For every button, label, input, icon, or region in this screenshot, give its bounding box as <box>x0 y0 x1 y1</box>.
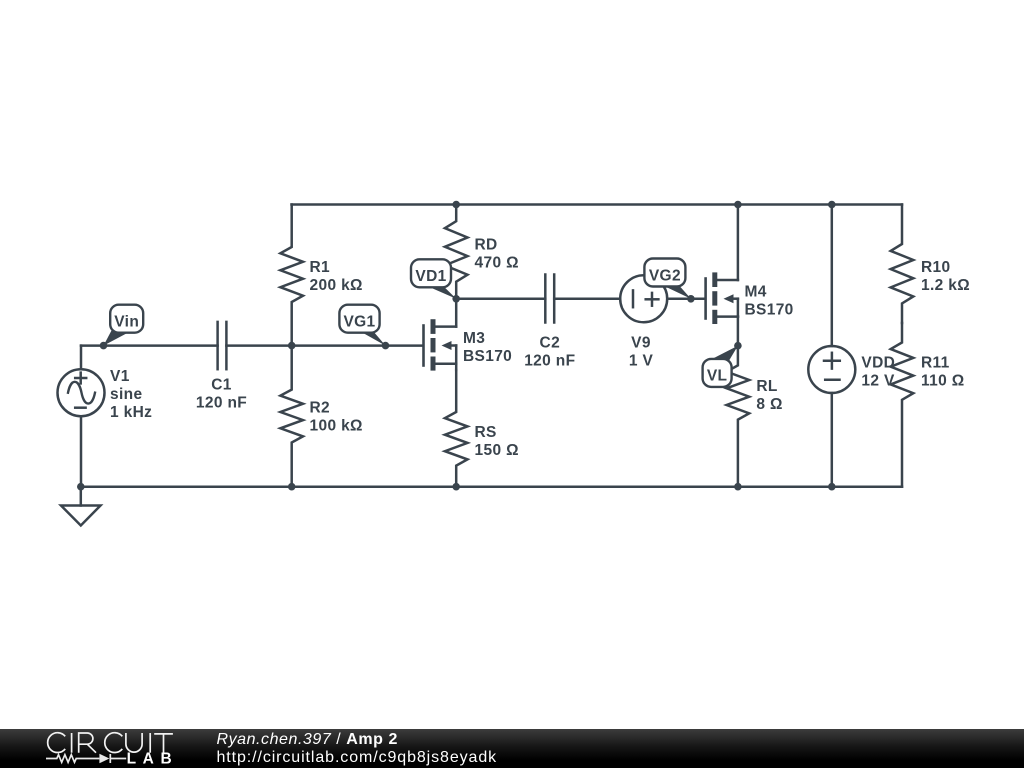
capacitor C2 <box>545 275 554 323</box>
flag VG2 <box>644 259 691 299</box>
wire mid net (VD1 node to C2) <box>456 298 545 301</box>
svg-text:VDD: VDD <box>861 355 895 372</box>
node VG2 junction <box>687 295 695 303</box>
voltage source V1 (sine) <box>58 346 105 487</box>
svg-text:12 V: 12 V <box>861 373 895 390</box>
resistor RL <box>727 346 750 487</box>
svg-text:120 nF: 120 nF <box>524 353 575 370</box>
svg-text:RS: RS <box>475 424 497 441</box>
svg-text:8 Ω: 8 Ω <box>756 396 782 413</box>
svg-text:R2: R2 <box>310 400 331 417</box>
node RS bottom <box>452 483 460 491</box>
svg-text:VD1: VD1 <box>415 268 446 285</box>
wire input net left segment <box>81 344 218 347</box>
svg-text:R11: R11 <box>921 355 950 372</box>
svg-text:150 Ω: 150 Ω <box>475 442 519 459</box>
svg-text:sine: sine <box>110 386 142 403</box>
wire input net right segment (C1 to M3 gate) <box>226 344 423 347</box>
svg-text:V9: V9 <box>631 335 651 352</box>
resistor R1 <box>280 205 303 346</box>
node ground junction <box>77 483 85 491</box>
node VG1 junction <box>382 342 390 350</box>
node VL junction <box>734 342 742 350</box>
footer bar <box>0 729 1024 768</box>
flag VD1 <box>411 259 456 299</box>
node R2 bottom <box>288 483 296 491</box>
CircuitLab logo <box>0 729 210 768</box>
flag VL <box>703 346 738 387</box>
svg-text:R1: R1 <box>310 259 331 276</box>
svg-text:C1: C1 <box>211 377 232 394</box>
svg-text:470 Ω: 470 Ω <box>475 255 519 272</box>
svg-text:200 kΩ: 200 kΩ <box>310 277 363 294</box>
wire V9 to M4 gate <box>667 298 705 301</box>
svg-text:M4: M4 <box>745 284 767 301</box>
capacitor C1 <box>218 322 227 369</box>
flag Vin <box>104 305 144 346</box>
node VD1 junction <box>452 295 460 303</box>
svg-text:BS170: BS170 <box>745 302 794 319</box>
svg-text:R10: R10 <box>921 259 950 276</box>
svg-text:VL: VL <box>707 368 728 385</box>
node VDD bottom <box>828 483 836 491</box>
svg-text:VG1: VG1 <box>343 314 375 331</box>
svg-text:110 Ω: 110 Ω <box>921 373 965 390</box>
svg-text:RD: RD <box>475 237 498 254</box>
resistor RD <box>445 205 468 299</box>
resistor R2 <box>280 346 303 487</box>
node M4 drain top <box>734 201 742 209</box>
wire top rail <box>292 203 903 206</box>
voltage source V9 <box>620 275 667 322</box>
node Vin junction <box>100 342 108 350</box>
svg-text:1 kHz: 1 kHz <box>110 404 152 421</box>
resistor R10 <box>891 205 914 324</box>
voltage source VDD <box>808 205 855 487</box>
svg-text:Vin: Vin <box>114 314 139 331</box>
transistor M3 <box>424 299 457 371</box>
svg-text:M3: M3 <box>463 330 485 347</box>
resistor R11 <box>891 323 914 487</box>
resistor RS <box>445 370 468 487</box>
svg-text:BS170: BS170 <box>463 348 512 365</box>
svg-text:VG2: VG2 <box>649 267 681 284</box>
svg-text:LAB: LAB <box>127 751 179 768</box>
node RD top <box>452 201 460 209</box>
flag VG1 <box>339 305 385 346</box>
svg-text:RL: RL <box>756 378 777 395</box>
credit text <box>217 731 498 766</box>
svg-text:V1: V1 <box>110 368 130 385</box>
svg-text:1.2 kΩ: 1.2 kΩ <box>921 277 970 294</box>
node R1/R2 junction <box>288 342 296 350</box>
node VDD top <box>828 201 836 209</box>
wire C2 to V9 <box>554 298 620 301</box>
svg-text:1 V: 1 V <box>629 353 654 370</box>
svg-text:100 kΩ: 100 kΩ <box>310 418 363 435</box>
wire bottom rail <box>81 485 902 488</box>
svg-text:C2: C2 <box>540 335 561 352</box>
svg-text:120 nF: 120 nF <box>196 395 247 412</box>
node RL bottom <box>734 483 742 491</box>
transistor M4 <box>706 205 738 346</box>
ground <box>61 487 101 526</box>
